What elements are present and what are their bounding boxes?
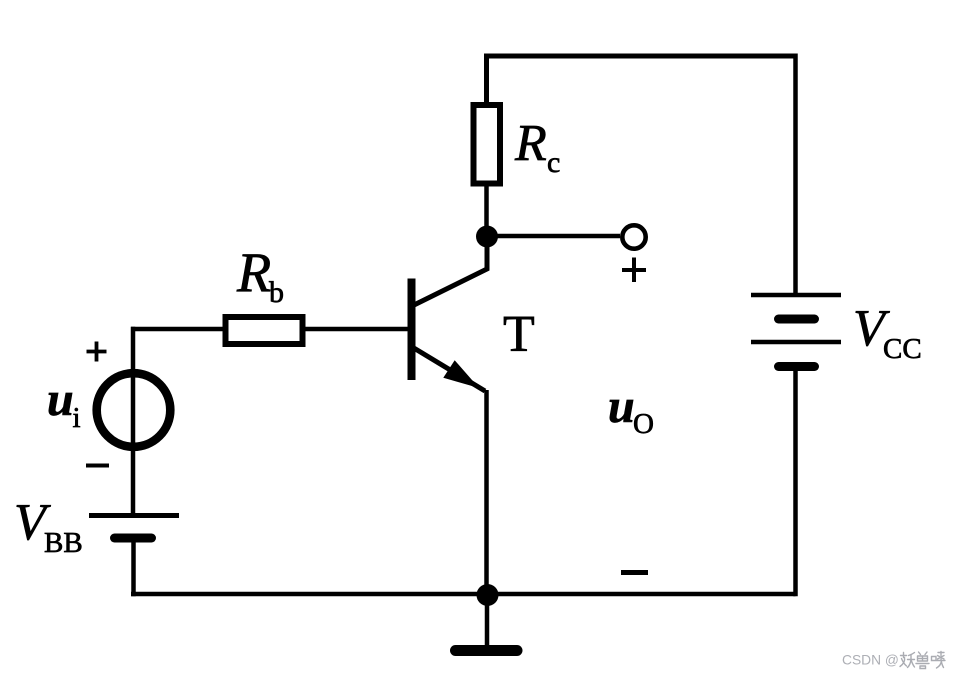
wire emitter to bottom node bbox=[484, 390, 489, 600]
svg-text:O: O bbox=[633, 408, 654, 440]
wire collector bbox=[412, 240, 487, 306]
emitter arrowhead bbox=[443, 360, 479, 388]
wire top rail bbox=[484, 54, 796, 59]
label minus output bbox=[621, 570, 648, 575]
ground bbox=[456, 595, 518, 651]
label u_i bbox=[47, 373, 81, 434]
wire input left drop bbox=[131, 327, 136, 515]
svg-text:u: u bbox=[608, 380, 635, 433]
label minus input bbox=[86, 464, 109, 468]
node ground junction bbox=[477, 584, 499, 606]
source u_i bbox=[97, 373, 171, 447]
wire Vcc to bottom rail bbox=[793, 367, 798, 597]
terminal output bbox=[622, 225, 645, 248]
battery V_CC bbox=[751, 295, 841, 367]
wire node to output terminal bbox=[487, 234, 620, 239]
wire top-left drop to Rc bbox=[484, 54, 489, 105]
watermark CJK glyphs bbox=[900, 652, 945, 669]
label plus input bbox=[87, 342, 107, 362]
label Rc bbox=[514, 115, 560, 179]
node collector junction bbox=[476, 226, 498, 248]
svg-text:CSDN @: CSDN @ bbox=[842, 653, 899, 668]
label V_CC bbox=[853, 300, 922, 365]
wire bottom rail bbox=[131, 592, 796, 597]
wire base bbox=[131, 327, 408, 332]
label Rb bbox=[236, 242, 284, 309]
label u_O bbox=[608, 380, 654, 440]
svg-text:u: u bbox=[47, 373, 74, 426]
battery V_BB bbox=[89, 516, 179, 539]
resistor Rb bbox=[226, 317, 303, 344]
svg-text:T: T bbox=[503, 306, 535, 363]
resistor Rc bbox=[474, 105, 501, 184]
wire Rc to collector node bbox=[484, 183, 489, 240]
svg-text:CC: CC bbox=[883, 333, 922, 365]
watermark CSDN bbox=[842, 653, 899, 668]
label V_BB bbox=[14, 494, 83, 559]
svg-text:c: c bbox=[547, 146, 560, 179]
wire emitter bbox=[413, 348, 485, 392]
svg-text:BB: BB bbox=[44, 527, 83, 559]
wire top-right drop to Vcc bbox=[793, 54, 798, 296]
svg-text:b: b bbox=[269, 276, 284, 309]
label T bbox=[503, 306, 535, 363]
svg-text:R: R bbox=[514, 115, 547, 172]
transistor T base bar bbox=[408, 279, 416, 381]
svg-text:R: R bbox=[236, 242, 271, 304]
svg-text:i: i bbox=[73, 402, 81, 434]
label plus output bbox=[622, 258, 646, 283]
wire VBB to bottom rail bbox=[131, 540, 136, 596]
